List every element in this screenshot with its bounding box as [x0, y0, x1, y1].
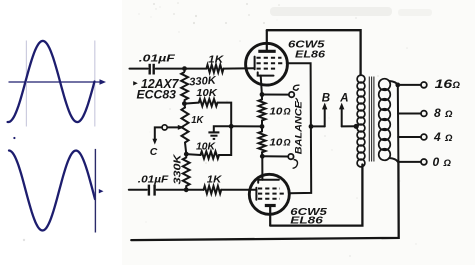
svg-text:1K: 1K — [207, 173, 223, 185]
svg-text:Ω: Ω — [444, 109, 453, 120]
wire: common return rail — [131, 162, 398, 240]
arrow A — [339, 103, 344, 127]
wire: node B to arrow B — [311, 125, 325, 127]
tube V1 6CW5/EL86 envelope — [246, 43, 288, 85]
faint scan smudge band (artifact) — [270, 7, 392, 16]
wire: R5 up to ground node — [219, 126, 231, 155]
svg-text:8: 8 — [434, 106, 441, 120]
node K2 junction dot — [260, 154, 265, 159]
node: 16 ohm tap dot — [395, 83, 400, 88]
resistor R3 10K (upper) — [199, 99, 218, 106]
potentiometer R4 wiper arrow — [167, 125, 184, 130]
squiggle below T1 — [296, 98, 298, 102]
terminal 4 ohm — [421, 134, 427, 140]
primary centre tap dot — [354, 124, 359, 129]
svg-text:16: 16 — [435, 77, 453, 91]
bottom plot axis arrowhead — [99, 189, 104, 193]
wire: arrow A to primary centre tap — [342, 125, 356, 127]
tube V2 grid bracket — [255, 188, 257, 200]
terminal 8 ohm — [421, 111, 427, 117]
svg-text:1K: 1K — [208, 53, 225, 65]
wire: V1 plate to transformer primary top — [267, 30, 361, 75]
stray dot above bottom plot — [13, 137, 15, 139]
wire: ground node to ground symbol — [214, 126, 231, 131]
faint smudge bottom left — [23, 239, 25, 241]
svg-text:Ω: Ω — [452, 80, 461, 91]
wire: K1 stub — [261, 95, 263, 100]
transformer T1 secondary winding — [379, 79, 391, 161]
top waveform plot left gridline — [25, 41, 27, 127]
svg-text:Ω: Ω — [283, 107, 291, 117]
svg-text:330K: 330K — [173, 154, 184, 185]
svg-text:1K: 1K — [191, 115, 204, 126]
bottom sine wave (inverted signal) — [9, 151, 95, 231]
balance terminal T1 — [289, 92, 294, 97]
wire: K2 to balance terminal T2 — [262, 155, 288, 157]
wire: secondary bottom lead — [389, 158, 398, 162]
node A4 junction dot — [184, 187, 189, 192]
scanned-paper background — [122, 0, 475, 265]
svg-text:10K: 10K — [196, 140, 216, 152]
svg-text:EL86: EL86 — [295, 50, 326, 61]
tube V1 cathode — [258, 72, 274, 75]
node A2 junction dot — [182, 101, 187, 106]
wire: cap C2 to resistor R7 — [157, 189, 204, 191]
wire: K1 to balance terminal T1 — [262, 94, 289, 96]
wire: 16 ohm tap — [398, 84, 421, 86]
top sine wave (non-inverted signal) — [8, 41, 95, 122]
ground symbol — [208, 132, 219, 139]
wire: ground node to cathode divider midpoint — [231, 125, 262, 127]
wire: R1 to tube V1 grid — [224, 67, 255, 69]
svg-text:0: 0 — [433, 155, 440, 169]
bottom plot right boundary line — [94, 149, 96, 233]
wire: mid stub — [261, 120, 263, 131]
tube V2 6CW5/EL86 envelope — [249, 174, 289, 214]
wire: node A2 to resistor R3 — [184, 103, 198, 104]
resistor R8 10ohm (upper balance) — [259, 99, 266, 120]
pointer arrow at 12AX7 label — [133, 81, 138, 85]
svg-text:Ω: Ω — [283, 138, 291, 148]
wire: 0 ohm tap — [398, 161, 421, 163]
tube V1 cathode lead — [261, 76, 262, 95]
arrow B — [322, 103, 327, 127]
tube V1 grid bracket — [254, 57, 256, 70]
svg-text:B: B — [322, 92, 330, 104]
transformer T1 core — [369, 77, 374, 162]
svg-text:.01µF: .01µF — [138, 174, 170, 185]
resistor R7 1K (bottom grid stopper) — [204, 186, 222, 194]
node K1 junction dot — [260, 92, 265, 97]
resistor R2 330K (top divider) — [181, 69, 188, 104]
wiper terminal circle — [162, 125, 167, 130]
tube V2 plate — [265, 206, 276, 226]
resistor R1 1K (top grid stopper) — [206, 65, 223, 73]
tube V2 cathode — [258, 180, 279, 183]
svg-text:10K: 10K — [196, 87, 218, 99]
top waveform plot right gridline — [94, 41, 96, 127]
wire: V2 plate to transformer primary bottom — [270, 165, 362, 226]
terminal 0 ohm — [421, 159, 427, 165]
svg-text:Ω: Ω — [443, 158, 452, 169]
wire: top input to coupling cap — [130, 68, 148, 70]
node A3 junction dot — [184, 152, 189, 157]
wire: secondary top lead — [389, 81, 398, 85]
wire: wiper to C output with down arrow — [152, 127, 162, 144]
svg-text:Ω: Ω — [444, 133, 453, 144]
svg-text:C: C — [150, 146, 158, 158]
node B junction dot — [309, 124, 314, 129]
svg-text:ECC83: ECC83 — [137, 88, 177, 102]
squiggle above T1 — [293, 85, 299, 90]
faint scan smudge right (artifact) — [398, 9, 432, 16]
tube V2 grids (dashed) — [258, 189, 286, 199]
top waveform plot axis — [9, 79, 107, 84]
resistor R5 10K (lower) — [201, 151, 220, 158]
wire: cap C1 to node A1 to resistor R1 — [156, 68, 207, 70]
wire: 8 ohm tap — [398, 113, 421, 115]
potentiometer R4 1K body — [182, 104, 189, 155]
svg-text:.01µF: .01µF — [139, 52, 176, 64]
terminal 16 ohm — [421, 82, 427, 88]
wire: R7 to tube V2 grid — [221, 189, 256, 191]
wire: K2 stub — [261, 152, 263, 156]
capacitor C2 .01uF (bottom) — [149, 185, 155, 196]
svg-text:A: A — [339, 92, 348, 104]
wire: V1 screen to bus — [287, 63, 311, 193]
svg-text:4: 4 — [433, 130, 441, 144]
tube V2 cathode lead — [261, 156, 263, 179]
svg-text:10: 10 — [269, 106, 282, 118]
wire: 4 ohm tap — [398, 136, 421, 138]
resistor R9 10ohm (lower balance) — [259, 132, 266, 153]
wire: secondary tap rail — [397, 85, 400, 162]
tube V1 plate — [258, 30, 275, 51]
svg-text:10: 10 — [269, 137, 282, 149]
resistor R6 330K (bottom divider) — [183, 154, 190, 190]
wire: node A3 to resistor R5 — [186, 153, 200, 156]
balance terminal T2 — [288, 154, 293, 159]
wire: R3 to vertical link — [218, 103, 232, 127]
svg-text:BALANCE: BALANCE — [293, 100, 304, 154]
wire: bottom input to coupling cap — [129, 189, 147, 191]
tube V1 grids (dashed) — [257, 58, 286, 69]
squiggle below T2 — [293, 160, 298, 169]
node K-mid junction dot — [260, 124, 265, 129]
capacitor C1 .01uF (top) — [150, 64, 154, 75]
transformer T1 primary winding — [357, 75, 365, 167]
node GND junction dot — [229, 124, 234, 129]
node A1 junction dot — [182, 66, 187, 71]
